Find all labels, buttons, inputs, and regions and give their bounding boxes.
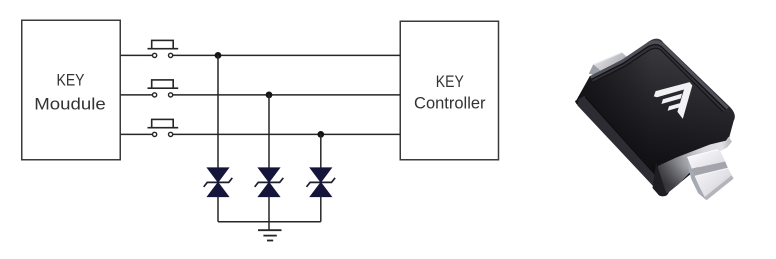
photo: SMD TVS diode package xyxy=(575,39,735,201)
switch S3 xyxy=(148,119,179,136)
ridge line 1 xyxy=(592,45,726,110)
svg-text:Controller: Controller xyxy=(414,95,486,113)
wire drop to D2 xyxy=(268,95,270,168)
wire row2 right xyxy=(173,94,400,96)
ridge band xyxy=(593,46,725,110)
TVS diode D1 xyxy=(204,168,233,197)
package body xyxy=(575,39,735,196)
wire drop to D3 xyxy=(320,134,322,168)
switch S2 xyxy=(148,80,179,97)
wire D1 to bus xyxy=(217,197,219,222)
left side face top edge xyxy=(585,97,668,189)
ridge line 2 xyxy=(593,48,723,112)
bottom corner wedge xyxy=(653,163,667,197)
svg-text:KEY: KEY xyxy=(57,72,85,90)
cathode tab xyxy=(589,52,628,76)
wire D2 to bus xyxy=(268,197,270,222)
svg-text:KEY: KEY xyxy=(436,73,464,91)
junction node row3 xyxy=(317,131,324,138)
wire D3 to bus xyxy=(320,197,322,222)
svg-text:Moudule: Moudule xyxy=(34,96,106,114)
junction node row1 xyxy=(215,52,222,59)
KEY Module block xyxy=(22,20,121,160)
KEY Controller block xyxy=(400,21,498,160)
top-left bevel highlight xyxy=(591,42,728,108)
wire drop to D1 xyxy=(217,55,219,168)
wire row1 left xyxy=(121,54,153,56)
TVS diode D2 xyxy=(255,168,284,197)
anode lead xyxy=(687,150,733,201)
left side face xyxy=(578,96,669,195)
junction node row2 xyxy=(266,92,273,99)
TVS diode D3 xyxy=(307,168,336,197)
ground bus wire xyxy=(218,221,321,223)
logo xyxy=(654,82,693,119)
wire row1 right xyxy=(173,54,400,56)
ground xyxy=(258,222,282,241)
left shade overlay xyxy=(575,39,735,196)
wire row3 right xyxy=(173,133,400,135)
bottom-right chamfer band xyxy=(658,137,732,196)
wire row3 left xyxy=(121,133,153,135)
wire row2 left xyxy=(121,94,153,96)
switch S1 xyxy=(148,40,179,57)
